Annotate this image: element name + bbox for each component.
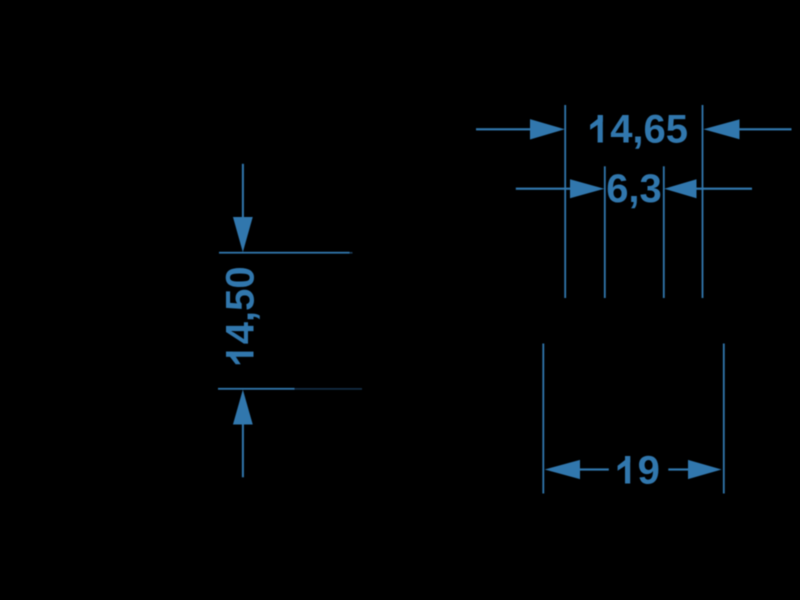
horizontal dimension 19 : left line segment — [580, 468, 609, 470]
horizontal dimension 14,65 : right arrowhead — [703, 119, 739, 139]
horizontal dimension 19 : label text — [618, 449, 660, 493]
svg-text:9: 9 — [638, 449, 660, 493]
vertical dimension 14,50 : bottom extension line bright part — [218, 388, 295, 390]
vertical dimension 14,50 : up arrowhead — [233, 390, 253, 425]
vertical dimension 14,50 : top extension line dim tail — [350, 252, 353, 254]
svg-text:6,3: 6,3 — [606, 167, 662, 211]
horizontal dimension 19 : right extension line — [723, 344, 725, 494]
horizontal dimension 19 : right arrowhead — [688, 460, 722, 479]
svg-text:4,65: 4,65 — [610, 108, 688, 152]
vertical dimension 14,50 : down arrowhead — [233, 217, 253, 252]
horizontal dimension 6,3 : right arrowhead — [664, 179, 696, 198]
vertical dimension 14,50 : lower leader line — [242, 425, 244, 478]
horizontal dimension 6,3 : right extension line — [663, 166, 665, 298]
vertical dimension 14,50 : bottom extension line dim part over drawing — [295, 388, 363, 390]
horizontal dimension 14,65 : left arrowhead — [530, 119, 565, 139]
horizontal dimension 14,65 : left extension line — [564, 105, 566, 298]
horizontal dimension 6,3 : left extension line — [604, 166, 606, 298]
horizontal dimension 14,65 : left tail line — [476, 128, 530, 130]
horizontal dimension 6,3 : left arrowhead — [570, 179, 604, 198]
horizontal dimension 14,65 : label text — [590, 108, 688, 152]
horizontal dimension 14,65 : right extension line — [702, 105, 704, 298]
horizontal dimension 6,3 : right tail line — [697, 188, 753, 190]
horizontal dimension 6,3 : left tail line — [516, 188, 570, 190]
horizontal dimension 19 : left extension line — [542, 344, 544, 494]
horizontal dimension 14,65 : right tail line — [740, 128, 792, 130]
horizontal dimension 19 : right line segment — [668, 468, 688, 470]
horizontal dimension 19 : left arrowhead — [545, 460, 580, 479]
vertical dimension 14,50 : upper leader line — [242, 164, 244, 217]
vertical dimension 14,50 : top extension line — [219, 252, 350, 254]
svg-text:4,50: 4,50 — [219, 266, 263, 344]
vertical dimension 14,50 : label text rotated — [219, 266, 263, 364]
